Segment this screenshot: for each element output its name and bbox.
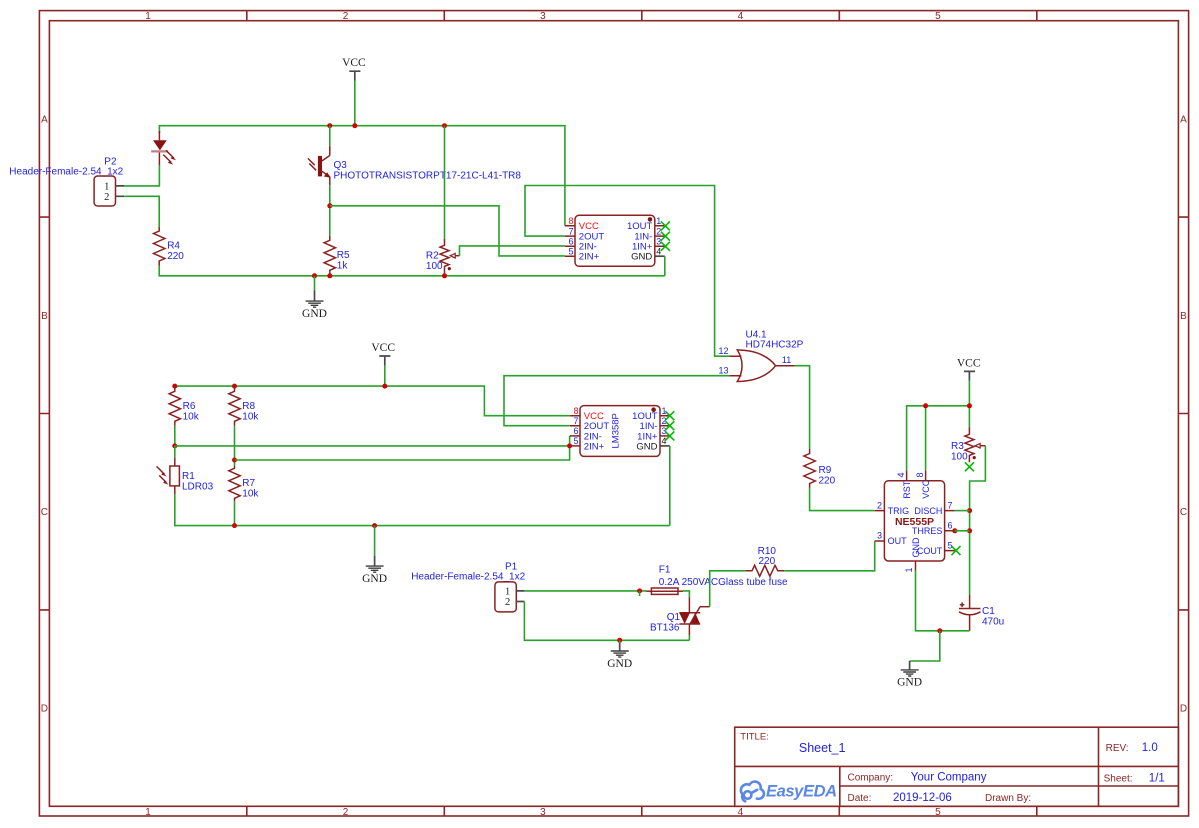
wire junction to 2IN+ (lower) (175, 445, 570, 447)
triac Q1 BT136 (650, 598, 710, 636)
op-amp U? pin names left (579, 221, 605, 262)
title block divider line horizontal 2 (840, 785, 1179, 787)
EasyEDA logo cloud icon (741, 782, 764, 802)
node R6-R1 junction (172, 443, 177, 448)
op-amp U? (lower LM358P) body (580, 406, 660, 457)
resistor R10 (745, 546, 784, 577)
node THRES stub junction (952, 528, 957, 533)
svg-text:R2: R2 (426, 251, 439, 262)
svg-text:13: 13 (719, 366, 729, 376)
svg-text:VCC: VCC (371, 342, 395, 354)
wire THRES stub wire (955, 530, 970, 532)
svg-text:B: B (41, 311, 48, 322)
LED cathode bar (151, 150, 168, 152)
node rail3-R7 (232, 523, 237, 528)
timer top pin stubs (907, 471, 926, 481)
svg-text:4: 4 (896, 472, 906, 477)
svg-text:5: 5 (573, 436, 578, 446)
LED emission arrow 2 (163, 155, 173, 165)
svg-text:DISCH: DISCH (914, 506, 942, 516)
svg-text:REV:: REV: (1106, 743, 1129, 754)
svg-text:Date:: Date: (848, 793, 872, 804)
svg-text:5: 5 (935, 11, 941, 22)
svg-text:5: 5 (935, 807, 941, 818)
svg-text:6: 6 (948, 521, 953, 531)
node THRES junction (967, 528, 972, 533)
ground GND2 (362, 556, 387, 585)
frame column labels top (145, 11, 941, 22)
node rail4-pin8 (923, 403, 928, 408)
op-amp U? pin1 marker dot (648, 217, 653, 222)
svg-text:7: 7 (573, 416, 578, 426)
svg-text:VCC: VCC (921, 479, 931, 499)
OR gate U4.1 (719, 330, 804, 382)
wire R8 to R7 junction (234, 426, 236, 466)
svg-text:R6: R6 (183, 401, 196, 412)
wire fuse to Q1 (683, 591, 689, 598)
wire emitter junction to 2IN+ (upper) (330, 206, 565, 256)
svg-text:3: 3 (540, 807, 546, 818)
svg-text:Company:: Company: (848, 772, 894, 783)
svg-text:1: 1 (656, 216, 661, 226)
svg-text:TITLE:: TITLE: (740, 732, 769, 743)
svg-text:Drawn By:: Drawn By: (985, 793, 1031, 804)
connector P1 body (495, 582, 516, 612)
svg-text:R3: R3 (951, 441, 964, 452)
op-amp lower pin numbers left (573, 406, 578, 446)
wire R10 to 555 OUT (784, 541, 875, 571)
node 2IN+ lower junction (567, 443, 572, 448)
svg-text:2: 2 (343, 807, 349, 818)
power flag VCC (middle) (371, 342, 395, 366)
timer bottom pin stub (915, 561, 917, 571)
node gndrail-GND1 (312, 273, 317, 278)
node rail1-VCC (352, 123, 357, 128)
svg-text:2019-12-06: 2019-12-06 (893, 792, 952, 804)
svg-text:220: 220 (758, 556, 775, 567)
timer right pin stubs (945, 511, 955, 551)
node R8-R7 junction (232, 458, 237, 463)
svg-text:3: 3 (540, 11, 546, 22)
wire DISCH stub wire (955, 510, 970, 512)
LED emission arrow 1 (166, 150, 176, 160)
svg-text:LM358P: LM358P (611, 413, 622, 448)
power flag VCC (top) (342, 57, 366, 81)
op-amp U? pin numbers right (656, 216, 661, 256)
ground GND1 (302, 291, 327, 321)
svg-text:Your Company: Your Company (911, 771, 987, 783)
wire upper IC pin7 2OUT to OR gate pin12 (525, 186, 730, 357)
node rail1-Q3 (327, 123, 332, 128)
svg-text:R7: R7 (242, 478, 255, 489)
title block divider line horizontal 1 (735, 765, 1179, 767)
phototransistor Q3 collector wire (329, 126, 331, 146)
LED triangle (153, 140, 167, 150)
op-amp U? right pin stubs (655, 226, 666, 246)
wire P2 pin2 to R4 (124, 196, 159, 227)
wire rail4 555 top (907, 406, 970, 471)
wire GND2 stem (374, 526, 376, 556)
frame column ticks bottom (247, 806, 1037, 816)
svg-text:Sheet_1: Sheet_1 (799, 741, 846, 755)
no-connect X R3 bottom (965, 462, 974, 471)
op-amp lower left pin stubs (570, 416, 580, 446)
potentiometer R2 (426, 239, 460, 274)
frame column ticks top (247, 11, 1037, 21)
op-amp lower pin names right (632, 411, 658, 452)
svg-text:LDR03: LDR03 (182, 482, 214, 493)
power flag VCC (right) (957, 358, 981, 381)
node rail2-VCC (382, 384, 387, 389)
svg-text:GND: GND (302, 308, 327, 320)
wire GND3 drop (910, 631, 940, 661)
svg-text:100: 100 (426, 261, 443, 272)
svg-text:Q3: Q3 (334, 160, 348, 171)
timer left pin stubs (875, 511, 885, 541)
svg-text:F1: F1 (659, 565, 671, 576)
svg-text:3: 3 (877, 531, 882, 541)
svg-text:220: 220 (167, 251, 184, 262)
LED cathode lead (158, 153, 160, 166)
svg-text:Sheet:: Sheet: (1104, 773, 1133, 784)
svg-text:220: 220 (819, 476, 836, 487)
op-amp U? (upper LM358) body (575, 215, 655, 266)
svg-text:4: 4 (656, 246, 661, 256)
svg-text:4: 4 (738, 807, 744, 818)
op-amp lower pin names left (584, 411, 610, 452)
resistor R6 (169, 386, 200, 426)
no-connect X lower pin2 (665, 421, 674, 430)
node rail5-GND4 (617, 638, 622, 643)
node fuse junction with stub (637, 588, 642, 593)
svg-text:Header-Female-2.54_1x2: Header-Female-2.54_1x2 (411, 571, 525, 582)
svg-text:D: D (1180, 704, 1187, 715)
resistor R8 (229, 386, 260, 426)
fuse F1 (647, 565, 789, 595)
svg-text:1: 1 (145, 807, 151, 818)
wire upper IC pin4 GND to rail (664, 256, 666, 276)
frame row labels left (41, 114, 48, 714)
svg-text:4: 4 (662, 436, 667, 446)
svg-text:3: 3 (656, 236, 661, 246)
op-amp lower pin4 gray stub (660, 445, 670, 447)
svg-text:1: 1 (145, 11, 151, 22)
svg-text:C: C (41, 507, 48, 518)
no-connect X timer pin5 (952, 546, 961, 555)
svg-text:PHOTOTRANSISTORPT17-21C-L41-TR: PHOTOTRANSISTORPT17-21C-L41-TR8 (334, 171, 522, 182)
wire R2 wiper to 2IN- (upper) (460, 246, 565, 256)
wire P1 pin1 to fuse (524, 590, 646, 592)
resistor R5 (324, 236, 350, 275)
svg-text:HD74HC32P: HD74HC32P (746, 339, 804, 350)
op-amp lower right pin stubs (660, 416, 670, 436)
svg-text:COUT: COUT (917, 546, 943, 556)
wire lower IC pin4 GND to rail3 (669, 446, 671, 526)
svg-text:10k: 10k (242, 412, 259, 423)
LED D? anode lead (158, 131, 160, 140)
svg-text:10k: 10k (183, 412, 200, 423)
svg-text:R9: R9 (819, 465, 832, 476)
no-connect X pin2 (661, 232, 670, 241)
op-amp U? left pin stubs (565, 226, 575, 256)
no-connect X pin1 (661, 221, 670, 230)
svg-text:2IN+: 2IN+ (579, 252, 600, 263)
frame row labels right (1180, 114, 1187, 714)
resistor R9 (804, 449, 836, 488)
op-amp U? pin numbers left (568, 216, 573, 256)
no-connect X lower pin1 (665, 411, 674, 420)
svg-text:GND: GND (362, 573, 387, 585)
svg-text:A: A (1180, 114, 1187, 125)
wire R6 to junction (174, 426, 176, 446)
svg-text:12: 12 (719, 346, 729, 356)
svg-text:R4: R4 (167, 241, 180, 252)
frame row ticks left (39, 217, 49, 610)
wire Q1 gate to R10 (710, 571, 746, 607)
svg-text:RST: RST (902, 480, 912, 499)
wire VCC pin8 drop (925, 406, 927, 471)
wire rail2 (VCC middle) (175, 386, 570, 416)
node gndrail-R5 (327, 273, 332, 278)
svg-text:5: 5 (568, 246, 573, 256)
svg-text:8: 8 (915, 472, 925, 477)
wire GND1 stem (314, 276, 316, 291)
resistor R4 (154, 227, 185, 266)
wire VCC2 stem (384, 366, 386, 387)
phototransistor Q3 (308, 146, 521, 186)
svg-text:7: 7 (948, 500, 953, 510)
svg-text:GND: GND (636, 441, 657, 452)
op-amp U? pin4 gray stub (655, 255, 665, 257)
svg-text:6: 6 (568, 236, 573, 246)
wire junction to 2IN- (lower) (235, 436, 570, 460)
no-connect X lower pin3 (665, 431, 674, 440)
svg-text:8: 8 (573, 406, 578, 416)
wire junction down to R1 (174, 446, 176, 458)
wire rail1 VCC top (159, 126, 565, 226)
svg-text:THRES: THRES (912, 526, 943, 536)
svg-text:2: 2 (656, 226, 661, 236)
svg-text:6: 6 (573, 426, 578, 436)
svg-text:BT136: BT136 (650, 623, 680, 634)
svg-text:1k: 1k (337, 261, 349, 272)
title block outline (735, 727, 1179, 806)
svg-text:7: 7 (568, 226, 573, 236)
svg-text:C1: C1 (982, 606, 995, 617)
wire rail5 gnd bottom (524, 602, 689, 641)
wire R3 wiper to DISCH (970, 446, 986, 595)
node rail1-R2 (442, 123, 447, 128)
node gndrail-R2 (442, 273, 447, 278)
svg-text:VCC: VCC (342, 57, 366, 69)
title block divider vertical REV column (1098, 727, 1100, 806)
node rail2-R8 (232, 384, 237, 389)
svg-text:2: 2 (343, 11, 349, 22)
svg-text:10k: 10k (242, 489, 259, 500)
svg-text:4: 4 (738, 11, 744, 22)
wire VCC3 stem (968, 381, 970, 406)
svg-text:470u: 470u (982, 617, 1004, 628)
photoresistor R1 LDR03 (157, 458, 214, 494)
timer NE555P body (884, 481, 944, 561)
capacitor C1 (959, 595, 1004, 631)
svg-text:0.2A 250VACGlass tube fuse: 0.2A 250VACGlass tube fuse (659, 577, 788, 588)
svg-text:EasyEDA: EasyEDA (766, 783, 837, 801)
svg-text:1.0: 1.0 (1142, 742, 1158, 754)
wire R1 to rail3 (175, 494, 670, 526)
wire VCC stem to rail1 (354, 81, 356, 126)
wire LED to P2 pin1 (124, 166, 159, 186)
svg-text:C: C (1180, 507, 1187, 518)
svg-text:A: A (41, 114, 48, 125)
svg-text:B: B (1180, 311, 1187, 322)
svg-text:R1: R1 (182, 471, 195, 482)
svg-text:OUT: OUT (888, 536, 908, 546)
wire Q3 emitter down (329, 185, 331, 236)
svg-text:GND: GND (631, 252, 652, 263)
node DISCH junction (967, 508, 972, 513)
svg-text:8: 8 (568, 216, 573, 226)
svg-text:2: 2 (104, 192, 109, 203)
node rail2-R6 (172, 384, 177, 389)
wire tiny stub below node (639, 591, 641, 596)
svg-text:2: 2 (877, 500, 882, 510)
no-connect X pin3 (661, 242, 670, 251)
potentiometer R3 (951, 428, 985, 463)
frame column labels bottom (145, 807, 941, 818)
svg-text:GND: GND (607, 658, 632, 670)
svg-text:R5: R5 (337, 250, 350, 261)
svg-text:TRIG: TRIG (888, 506, 910, 516)
op-amp lower pin1 marker dot (651, 407, 656, 412)
frame row ticks right (1178, 217, 1188, 610)
op-amp U? pin names right (627, 221, 653, 262)
svg-text:11: 11 (782, 355, 791, 365)
wire R4 to gnd rail (159, 266, 665, 276)
wire OR output to R9 (795, 366, 810, 449)
svg-text:GND: GND (897, 677, 922, 689)
node Q3-emitter junction (327, 203, 332, 208)
svg-text:Q1: Q1 (667, 612, 681, 623)
node GND3 junction (937, 628, 942, 633)
node rail4-VCC-R3 (967, 403, 972, 408)
svg-text:2: 2 (505, 597, 510, 608)
svg-text:100: 100 (951, 452, 968, 463)
svg-text:5: 5 (948, 540, 953, 550)
svg-text:1: 1 (904, 567, 914, 572)
svg-text:VCC: VCC (957, 358, 981, 370)
svg-text:D: D (41, 704, 48, 715)
title block divider vertical logo cell (839, 766, 841, 806)
connector P2 body (94, 176, 115, 206)
wire R7 to rail3 (234, 501, 236, 526)
ground GND3 (897, 661, 922, 689)
wire lower IC pin7 2OUT to OR gate pin13 (504, 376, 730, 426)
svg-text:1/1: 1/1 (1149, 772, 1165, 784)
ground GND4 (607, 640, 632, 670)
connector P1 pin leads (516, 591, 524, 602)
wire R2 top (444, 126, 446, 239)
wire 555 GND pin down (916, 571, 970, 631)
svg-text:R8: R8 (242, 401, 255, 412)
wire Q1 bottom to rail5 (688, 635, 690, 640)
node rail3-GND2 (372, 523, 377, 528)
wire R9 to TRIG (810, 488, 875, 511)
resistor R7 (229, 466, 260, 501)
connector P2 pin leads (116, 186, 125, 196)
svg-text:2IN+: 2IN+ (584, 441, 605, 452)
op-amp lower pin numbers right (662, 406, 667, 446)
